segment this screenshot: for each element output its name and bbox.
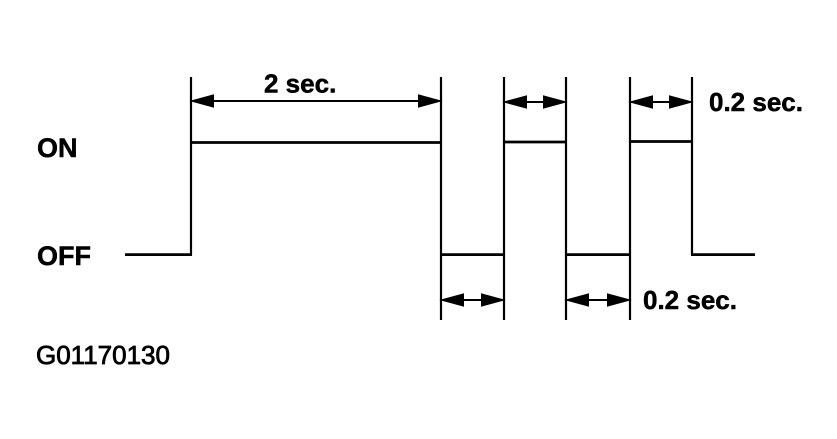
svg-text:2 sec.: 2 sec. xyxy=(264,69,336,99)
svg-text:0.2 sec.: 0.2 sec. xyxy=(643,285,737,315)
svg-text:0.2 sec.: 0.2 sec. xyxy=(709,87,803,117)
svg-text:OFF: OFF xyxy=(37,241,91,271)
svg-text:G01170130: G01170130 xyxy=(36,340,170,370)
svg-text:ON: ON xyxy=(37,133,78,163)
